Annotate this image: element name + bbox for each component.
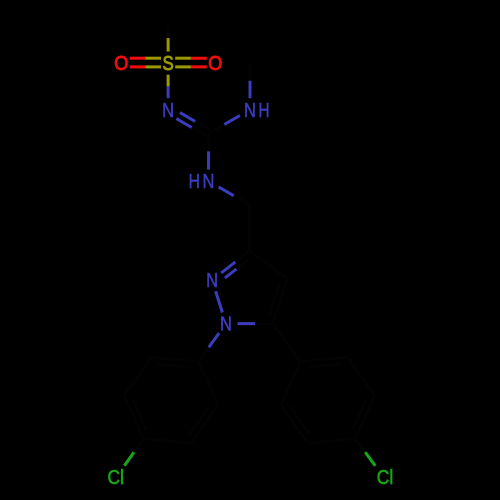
svg-text:N: N: [220, 312, 232, 335]
svg-text:H: H: [258, 99, 269, 121]
svg-text:O: O: [114, 53, 128, 75]
svg-text:N: N: [206, 269, 218, 292]
svg-text:H: H: [189, 170, 200, 192]
svg-text:O: O: [208, 53, 222, 75]
svg-text:Cl: Cl: [107, 466, 123, 488]
svg-text:Cl: Cl: [377, 466, 393, 488]
svg-text:N: N: [162, 98, 174, 121]
svg-text:N: N: [203, 170, 215, 193]
svg-text:S: S: [163, 52, 174, 75]
svg-text:N: N: [244, 98, 256, 121]
